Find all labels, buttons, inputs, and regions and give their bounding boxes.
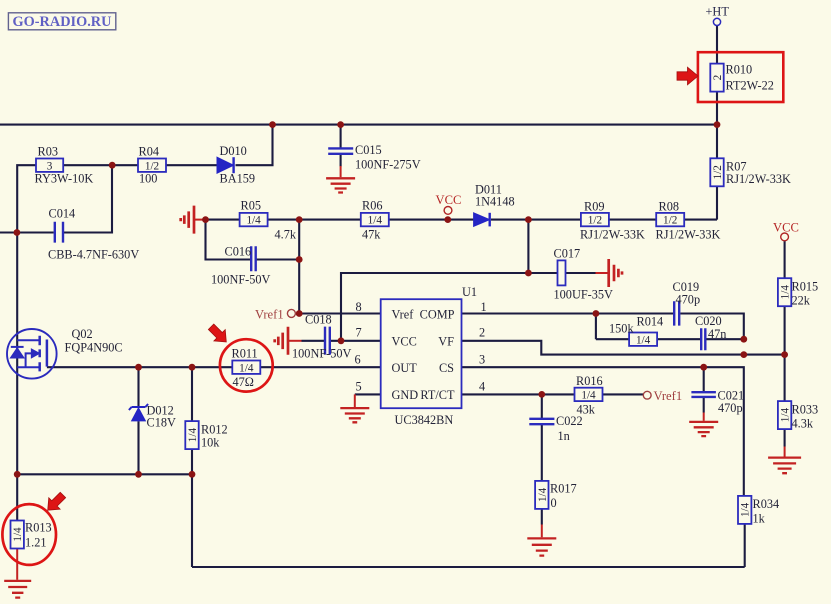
svg-text:1/4: 1/4 bbox=[636, 334, 651, 346]
wire R015 to R033 through VF node bbox=[784, 306, 786, 401]
svg-text:100UF-35V: 100UF-35V bbox=[554, 288, 614, 302]
wire pin5 stub bbox=[355, 393, 381, 395]
svg-text:7: 7 bbox=[356, 326, 362, 340]
wire C014 right up to R03-R04 node bbox=[64, 165, 112, 232]
resistor R017 bbox=[535, 481, 548, 509]
svg-text:150k: 150k bbox=[609, 322, 634, 336]
capacitor C020 plates bbox=[701, 328, 705, 350]
node D011 cathode junction bbox=[525, 216, 532, 223]
svg-text:1/4: 1/4 bbox=[187, 428, 199, 443]
diode D010 bbox=[217, 157, 234, 173]
diode D011 bbox=[474, 213, 490, 227]
svg-text:Q02: Q02 bbox=[72, 327, 93, 341]
wire R033 bottom lead bbox=[784, 429, 786, 446]
terminal Vref1 right bbox=[643, 391, 651, 399]
svg-text:C015: C015 bbox=[355, 143, 382, 157]
svg-text:1.21: 1.21 bbox=[25, 536, 47, 550]
svg-text:R015: R015 bbox=[792, 280, 819, 294]
svg-text:5: 5 bbox=[356, 380, 362, 394]
svg-text:470p: 470p bbox=[718, 401, 743, 415]
transistor Q02 MOSFET bbox=[7, 329, 57, 379]
svg-text:VF: VF bbox=[438, 335, 454, 349]
svg-text:1/4: 1/4 bbox=[780, 285, 792, 300]
svg-text:C016: C016 bbox=[225, 245, 252, 259]
node VCC tap junction bbox=[444, 216, 451, 223]
svg-text:RJ1/2W-33K: RJ1/2W-33K bbox=[656, 228, 721, 242]
highlight red box around R010 bbox=[698, 52, 783, 102]
node C014 left junction bbox=[14, 229, 21, 236]
svg-text:GO-RADIO.RU: GO-RADIO.RU bbox=[13, 14, 112, 30]
svg-text:OUT: OUT bbox=[392, 361, 418, 375]
resistor R03 bbox=[36, 159, 63, 172]
svg-text:R017: R017 bbox=[550, 482, 577, 496]
svg-text:47Ω: 47Ω bbox=[233, 375, 254, 389]
resistor R033 bbox=[778, 401, 791, 429]
svg-text:RT2W-22: RT2W-22 bbox=[726, 79, 774, 93]
svg-text:1/4: 1/4 bbox=[740, 502, 752, 517]
ground at R033 bbox=[768, 458, 801, 474]
node source bottom left junction bbox=[14, 471, 21, 478]
node C017 left junction bbox=[525, 270, 532, 277]
svg-text:4.7k: 4.7k bbox=[275, 228, 297, 242]
node rail/C015 junction bbox=[337, 121, 344, 128]
svg-text:1n: 1n bbox=[558, 429, 570, 443]
svg-text:U1: U1 bbox=[462, 285, 477, 299]
wire C016 branch bbox=[206, 220, 300, 314]
svg-text:CBB-4.7NF-630V: CBB-4.7NF-630V bbox=[48, 248, 139, 262]
svg-text:Vref1: Vref1 bbox=[654, 389, 683, 403]
wire red lead pin5 to ground bbox=[354, 394, 356, 407]
wire +HT to R010 bbox=[716, 25, 718, 63]
wire red lead R033 to ground bbox=[784, 447, 786, 457]
logo GO-RADIO.RU bbox=[8, 13, 115, 30]
highlight red circle around R013 bbox=[2, 504, 56, 565]
wire red lead of noise ground at C018 bbox=[288, 340, 302, 342]
wire R03 right to R04 bbox=[63, 164, 138, 166]
svg-text:VCC: VCC bbox=[392, 335, 417, 349]
wire R04 to D010 bbox=[166, 164, 217, 166]
wire pin1 row COMP with C019 bbox=[462, 314, 744, 340]
noise ground at C017 right bbox=[609, 259, 622, 287]
node D012 bottom junction bbox=[135, 471, 142, 478]
node RT-CT/C022 junction bbox=[538, 391, 545, 398]
wire gate row pin6 bbox=[47, 366, 381, 368]
svg-text:2: 2 bbox=[712, 75, 724, 81]
svg-text:1/2: 1/2 bbox=[712, 165, 724, 179]
svg-text:1/4: 1/4 bbox=[780, 408, 792, 423]
svg-text:R012: R012 bbox=[201, 423, 228, 437]
svg-text:1/2: 1/2 bbox=[145, 160, 159, 172]
wire C021 branch bbox=[703, 367, 705, 412]
noise ground at C018 left bbox=[275, 327, 288, 355]
svg-text:RJ1/2W-33K: RJ1/2W-33K bbox=[726, 172, 791, 186]
node R03/R04/C014 junction bbox=[109, 162, 116, 169]
resistor R034 bbox=[738, 496, 751, 524]
svg-text:C018: C018 bbox=[305, 313, 332, 327]
resistor R09 bbox=[581, 213, 609, 226]
svg-text:R03: R03 bbox=[38, 145, 59, 159]
svg-text:R09: R09 bbox=[584, 200, 605, 214]
svg-text:4.3k: 4.3k bbox=[792, 417, 814, 431]
svg-text:Vref1: Vref1 bbox=[255, 308, 284, 322]
svg-text:10k: 10k bbox=[201, 436, 220, 450]
svg-text:47n: 47n bbox=[708, 327, 726, 341]
wire red lead of noise ground at C017 bbox=[596, 272, 609, 274]
svg-text:C022: C022 bbox=[556, 414, 583, 428]
wire R07 bottom to R08 row corner bbox=[684, 186, 717, 219]
svg-text:100NF-50V: 100NF-50V bbox=[292, 347, 352, 361]
wire red lead C015 to ground bbox=[340, 166, 342, 177]
wire D011 to R09 and R08 bbox=[491, 219, 656, 221]
wire C015 from rail and lower lead bbox=[340, 125, 342, 167]
highlight red arrow at R013 bbox=[42, 489, 69, 516]
node Vref1/pin8 junction bbox=[296, 310, 303, 317]
capacitor C022 plates bbox=[529, 419, 554, 424]
svg-text:1/4: 1/4 bbox=[581, 390, 596, 402]
node rail/D010 junction bbox=[269, 121, 276, 128]
svg-text:UC3842BN: UC3842BN bbox=[395, 413, 454, 427]
svg-text:R011: R011 bbox=[232, 347, 258, 361]
capacitor C016 plates bbox=[251, 246, 256, 271]
svg-text:1/4: 1/4 bbox=[368, 215, 383, 227]
wire top HV rail bbox=[0, 124, 717, 126]
svg-text:BA159: BA159 bbox=[220, 172, 256, 186]
svg-text:C18V: C18V bbox=[147, 416, 176, 430]
wire pin3 CS row down to R034 bbox=[462, 367, 744, 496]
svg-text:R033: R033 bbox=[792, 403, 819, 417]
node rail/R010/R07 junction bbox=[714, 121, 721, 128]
wire R05 row bbox=[206, 219, 474, 221]
zener diode D012 bbox=[129, 404, 148, 421]
terminal VCC at D011 bbox=[444, 207, 452, 215]
svg-text:R010: R010 bbox=[726, 63, 753, 77]
wire left vertical column through Q02 bbox=[16, 233, 18, 521]
ground at pin5 GND bbox=[340, 408, 369, 422]
ground at R013 bbox=[4, 581, 31, 598]
wire R010 to R07 through rail node bbox=[716, 92, 718, 159]
svg-text:RY3W-10K: RY3W-10K bbox=[35, 172, 94, 186]
wire Vref1 to pin8 bbox=[295, 312, 380, 314]
svg-text:FQP4N90C: FQP4N90C bbox=[65, 341, 123, 355]
svg-text:RT/CT: RT/CT bbox=[420, 388, 455, 402]
svg-text:C020: C020 bbox=[695, 314, 722, 328]
node R05 right junction bbox=[296, 216, 303, 223]
resistor R05 bbox=[240, 213, 268, 226]
svg-text:Vref: Vref bbox=[392, 308, 415, 322]
svg-text:100NF-50V: 100NF-50V bbox=[211, 273, 271, 287]
wire red lead R013 to ground bbox=[16, 549, 18, 580]
wire VCC right to R015 bbox=[784, 241, 786, 278]
svg-text:1/4: 1/4 bbox=[537, 487, 549, 502]
wire D010 cathode up to rail bbox=[236, 125, 273, 165]
highlight red circle around R011 bbox=[220, 339, 273, 391]
wire pin4 RT/CT row bbox=[462, 393, 644, 395]
svg-text:C014: C014 bbox=[49, 207, 76, 221]
svg-text:R013: R013 bbox=[25, 521, 52, 535]
svg-text:1N4148: 1N4148 bbox=[475, 195, 515, 209]
svg-text:470p: 470p bbox=[676, 293, 701, 307]
wire C022 R017 column bbox=[541, 394, 543, 524]
svg-text:COMP: COMP bbox=[420, 308, 455, 322]
svg-text:R08: R08 bbox=[659, 200, 680, 214]
capacitor C014 plates bbox=[55, 222, 63, 243]
resistor R012 bbox=[185, 421, 198, 449]
node gate/R012 junction bbox=[189, 364, 196, 371]
terminal Vref1 left bbox=[287, 309, 295, 317]
svg-text:R016: R016 bbox=[576, 374, 603, 388]
wire C017 row bbox=[528, 272, 595, 274]
svg-text:R05: R05 bbox=[241, 199, 262, 213]
noise ground at R05 left bbox=[181, 206, 194, 234]
node pin1/R014 branch junction bbox=[593, 310, 600, 317]
wire red lead C021 to ground bbox=[703, 413, 705, 421]
resistor R08 bbox=[656, 213, 684, 226]
svg-text:2: 2 bbox=[479, 326, 485, 340]
svg-text:3: 3 bbox=[479, 353, 485, 367]
svg-text:VCC: VCC bbox=[773, 221, 799, 235]
svg-text:4: 4 bbox=[479, 380, 485, 394]
node R05 left junction bbox=[202, 216, 209, 223]
wire R03 left to C014 node bbox=[17, 165, 36, 232]
wire R012 branch bbox=[191, 367, 193, 567]
svg-text:R034: R034 bbox=[753, 497, 780, 511]
node R012 bottom junction bbox=[189, 471, 196, 478]
svg-text:47k: 47k bbox=[362, 228, 381, 242]
svg-text:1/4: 1/4 bbox=[12, 527, 24, 542]
svg-text:6: 6 bbox=[355, 353, 361, 367]
svg-text:1/4: 1/4 bbox=[239, 362, 254, 374]
resistor R010 bbox=[710, 64, 723, 92]
resistor R013 bbox=[11, 521, 24, 549]
ground at R017 bbox=[527, 538, 556, 555]
svg-text:1k: 1k bbox=[753, 512, 766, 526]
svg-text:+HT: +HT bbox=[706, 5, 730, 19]
highlight red arrow at R010 bbox=[677, 67, 698, 85]
resistor R014 bbox=[629, 333, 657, 346]
svg-text:GND: GND bbox=[392, 388, 419, 402]
wire pin2 VF stepped line bbox=[462, 341, 785, 355]
ground at C021 bbox=[689, 422, 718, 436]
svg-text:1/2: 1/2 bbox=[588, 215, 602, 227]
svg-text:100: 100 bbox=[139, 172, 157, 186]
svg-text:3: 3 bbox=[47, 160, 53, 172]
svg-text:1/4: 1/4 bbox=[246, 215, 261, 227]
svg-text:R014: R014 bbox=[637, 315, 664, 329]
wire red lead R017 to ground bbox=[541, 525, 543, 538]
wire C018 to pin7 bbox=[302, 340, 381, 342]
svg-text:100NF-275V: 100NF-275V bbox=[355, 158, 421, 172]
node gate/D012 junction bbox=[135, 364, 142, 371]
svg-text:RJ1/2W-33K: RJ1/2W-33K bbox=[580, 228, 645, 242]
wire D012 branch bbox=[137, 367, 139, 474]
wire red lead of noise ground at R05 bbox=[194, 219, 206, 221]
svg-text:C017: C017 bbox=[554, 247, 581, 261]
resistor R04 bbox=[138, 159, 166, 172]
svg-text:R06: R06 bbox=[362, 199, 383, 213]
svg-text:22k: 22k bbox=[792, 294, 811, 308]
resistor R016 bbox=[575, 388, 603, 401]
capacitor C018 plates bbox=[325, 327, 330, 355]
node C016 right junction bbox=[296, 256, 303, 263]
wire R014 C020 row bbox=[596, 314, 744, 340]
node pin7 VCC junction bbox=[338, 337, 345, 344]
ground at C015 bbox=[326, 178, 355, 192]
svg-text:CS: CS bbox=[439, 361, 454, 375]
resistor R015 bbox=[778, 278, 791, 306]
resistor R011 bbox=[232, 361, 260, 374]
node C020 right junction bbox=[740, 336, 747, 343]
wire left edge to C014 bbox=[0, 231, 54, 233]
node CS/C021 junction bbox=[700, 364, 707, 371]
terminal +HT bbox=[713, 18, 720, 25]
resistor R06 bbox=[361, 213, 389, 226]
chip U1 UC3842BN body bbox=[381, 299, 462, 408]
node compensation/VF junction bbox=[740, 351, 747, 358]
terminal VCC right bbox=[781, 233, 789, 241]
capacitor C021 plates bbox=[691, 392, 716, 397]
svg-text:VCC: VCC bbox=[436, 193, 462, 207]
svg-text:D010: D010 bbox=[220, 144, 247, 158]
svg-text:R04: R04 bbox=[139, 145, 160, 159]
node R015/R033/VF junction bbox=[781, 351, 788, 358]
wire VCC column D011 node down-left-down to pin7 bbox=[341, 220, 528, 341]
capacitor C017 polarized body bbox=[558, 260, 566, 285]
svg-text:1: 1 bbox=[481, 300, 487, 314]
svg-text:0: 0 bbox=[551, 496, 557, 510]
resistor R07 bbox=[710, 158, 723, 186]
svg-text:8: 8 bbox=[356, 300, 362, 314]
wire bottom return rail bbox=[192, 524, 745, 567]
svg-text:1/2: 1/2 bbox=[663, 215, 677, 227]
highlight red arrow at R011 bbox=[205, 321, 232, 348]
capacitor C015 plates bbox=[328, 148, 353, 153]
wire source bottom row bbox=[17, 473, 192, 475]
capacitor C019 plates bbox=[674, 301, 679, 325]
